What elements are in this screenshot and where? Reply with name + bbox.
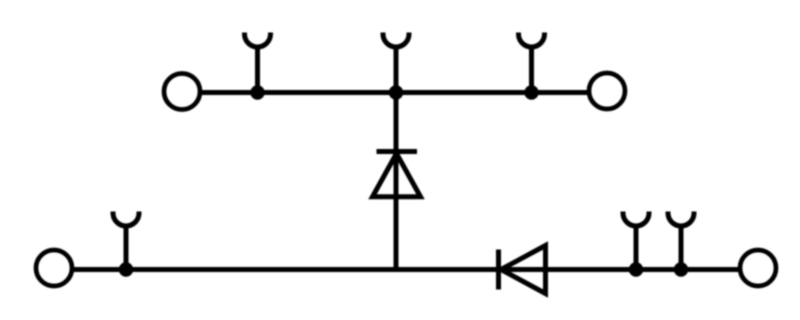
terminal circle (bottom-right) [740,250,776,286]
junction dot (top rail, middle) [389,85,403,99]
wire: vertical link between rails [394,93,399,271]
junction dot (bottom rail, left) [119,262,133,276]
wire: bottom rail [73,267,739,272]
diode D2 (horizontal, cathode left) [499,246,546,294]
wire: top rail [201,90,588,95]
junction dot (top rail, left) [250,85,264,99]
terminal circle (top-left) [164,74,200,110]
clamp tap fork (bottom rail, right inner) [623,212,649,269]
clamp tap fork (top rail, right) [519,33,545,91]
clamp tap fork (bottom rail, right outer) [668,212,694,269]
terminal circle (bottom-left) [36,250,72,286]
clamp tap fork (bottom rail, left) [113,212,139,269]
clamp tap fork (top rail, left) [245,33,271,91]
diode D1 (vertical, cathode up) [373,152,421,197]
junction dot (bottom rail, right outer) [674,262,688,276]
junction dot (top rail, right) [524,85,538,99]
terminal circle (top-right) [589,73,625,109]
junction dot (bottom rail, right inner) [629,262,643,276]
clamp tap fork (top rail, middle) [383,33,409,91]
